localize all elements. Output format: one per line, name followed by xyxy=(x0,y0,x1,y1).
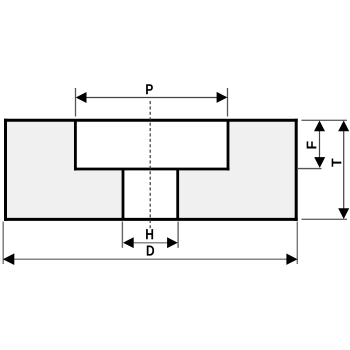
label T (rotated) xyxy=(332,159,342,167)
dimension P extension line right xyxy=(227,88,229,117)
dimension D right arrowhead xyxy=(286,254,297,265)
right top extension line xyxy=(302,119,348,121)
dimension H right arrowhead xyxy=(167,237,178,248)
dimension H extension line left xyxy=(121,222,123,248)
body bottom edge xyxy=(4,218,298,221)
dimension P extension line left xyxy=(75,88,77,117)
vertical centerline (dashed) xyxy=(149,101,151,229)
label D xyxy=(147,246,154,256)
dimension T line xyxy=(343,125,345,214)
bore left wall xyxy=(122,169,125,220)
recess right wall xyxy=(227,120,230,171)
body left edge xyxy=(4,119,7,221)
dimension T top arrowhead xyxy=(338,121,349,132)
dimension H extension line right xyxy=(177,222,179,248)
dimension F bottom arrowhead xyxy=(314,157,325,168)
dimension F line xyxy=(319,125,321,163)
wheel body (gray cross-section) xyxy=(4,119,298,221)
dimension D line xyxy=(8,258,293,260)
right bottom extension line xyxy=(302,218,348,220)
recess left wall xyxy=(74,120,77,171)
dimension P left arrowhead xyxy=(76,92,87,103)
dimension T bottom arrowhead xyxy=(338,208,349,219)
dimension F top arrowhead xyxy=(314,121,325,132)
label P xyxy=(146,84,153,94)
dimension P right arrowhead xyxy=(217,92,228,103)
right middle extension line (recess depth level) xyxy=(297,168,322,170)
label H xyxy=(146,229,153,239)
dimension D extension line left xyxy=(2,222,4,265)
dimension D left arrowhead xyxy=(3,253,15,265)
dimension H left arrowhead xyxy=(123,237,134,248)
recess cavity (white, width P, depth F) xyxy=(75,120,228,170)
label F (rotated) xyxy=(307,141,317,148)
dimension H line xyxy=(127,242,174,244)
recess bottom edge xyxy=(74,168,229,171)
dimension P line xyxy=(80,97,223,99)
body right edge xyxy=(295,119,298,221)
bore hole (white, width H) xyxy=(123,168,178,220)
body top edge xyxy=(4,119,298,122)
bore right wall xyxy=(176,169,179,220)
dimension D extension line right xyxy=(296,222,298,265)
